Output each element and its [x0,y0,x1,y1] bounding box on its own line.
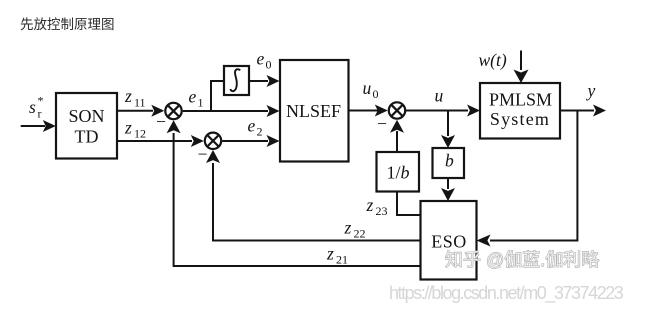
svg-text:0: 0 [373,87,379,101]
arrowhead 1/b into junction 3 [390,120,404,133]
wire u branch down to b [447,111,449,137]
wire z23 from ESO to 1/b [397,192,421,216]
label z12 [124,118,146,141]
label z22 [344,218,366,241]
summing junction 3 [389,102,405,118]
svg-text:NLSEF: NLSEF [286,101,341,121]
svg-text:w(t): w(t) [479,50,507,70]
svg-text:s: s [29,97,36,117]
wire e0 to NLSEF [249,80,268,82]
wire z21 to junction 1 [174,133,421,266]
wire e1 branch riser to integrator [211,81,224,111]
svg-text:r: r [38,107,42,121]
arrowhead input [43,120,56,132]
wire y feedback to ESO [490,111,577,241]
svg-text:z: z [344,218,352,238]
arrowhead z21 into junction 1 [167,120,181,133]
svg-text:b: b [445,151,454,171]
block PMLSM System [480,83,560,139]
arrowhead e1 [267,105,280,117]
wire b to ESO [447,178,449,189]
arrowhead into b [441,135,455,148]
svg-text:12: 12 [134,127,146,141]
svg-text:z: z [326,244,334,264]
svg-text:1/b: 1/b [386,163,409,183]
wire u0 [349,110,379,112]
arrowhead z22 into junction 2 [206,150,220,163]
svg-text:21: 21 [336,253,348,267]
svg-text:u: u [435,86,444,106]
summing junction 2 [205,133,221,149]
svg-text:11: 11 [134,96,146,110]
svg-text:z: z [124,86,132,106]
svg-text:0: 0 [266,58,272,72]
label z11 [124,86,146,110]
wire 1/b up to junction 3 [396,131,398,152]
block ESO [421,201,477,280]
block NLSEF [280,60,349,162]
wire z11 [117,110,153,112]
svg-text:−: − [376,114,388,134]
svg-text:e: e [248,116,256,136]
label z21 [326,244,348,267]
block 1/b [377,152,420,192]
svg-text:https://blog.csdn.net/m0_37374: https://blog.csdn.net/m0_37374223 [389,283,624,304]
wire input sr* [21,125,45,127]
title 先放控制原理图 [20,13,115,33]
arrowhead y [593,105,606,117]
svg-text:23: 23 [376,204,388,218]
svg-text:SON: SON [68,106,104,126]
arrowhead w(t) [514,70,529,84]
svg-text:e: e [189,87,197,107]
label u0 [363,78,379,101]
arrowhead u0 [375,105,388,117]
svg-text:z: z [124,118,132,138]
block b [433,148,465,178]
wire z22 to junction 2 [213,163,421,241]
wire z12 [117,140,192,142]
arrowhead b into ESO [441,188,455,201]
arrowhead z12 [191,135,204,147]
label e2 [248,116,263,139]
svg-text:TD: TD [75,127,99,147]
svg-text:1: 1 [198,96,204,110]
svg-text:*: * [38,94,44,108]
svg-text:知乎 @伽蓝.伽利略: 知乎 @伽蓝.伽利略 [445,250,599,270]
svg-text:y: y [586,81,596,101]
arrowhead feedback into ESO [477,235,491,247]
block integrator [224,66,249,95]
label sr* [29,94,44,121]
wire w(t) into PMLSM [520,51,522,71]
label z23 [366,195,388,218]
svg-text:z: z [366,195,374,215]
summing junction 1 [165,103,181,119]
text integral sign [231,69,241,91]
svg-text:2: 2 [257,125,263,139]
svg-text:System: System [490,109,550,129]
wire e1 to NLSEF [183,110,268,112]
wire e2 to NLSEF [222,140,268,142]
arrowhead u [467,105,480,117]
svg-text:e: e [257,49,265,69]
wire u to PMLSM [405,110,468,112]
arrowhead e0 [267,75,280,87]
arrowhead e2 [267,135,280,147]
block SON TD [56,93,117,159]
svg-text:22: 22 [354,227,366,241]
arrowhead z11 [151,105,164,117]
label e0 [257,49,272,72]
svg-text:−: − [155,112,167,132]
label e1 [189,87,204,110]
wire y output [560,110,594,112]
svg-text:ESO: ESO [431,232,467,252]
svg-text:PMLSM: PMLSM [489,90,552,110]
svg-text:−: − [197,144,209,164]
svg-text:u: u [363,78,372,98]
